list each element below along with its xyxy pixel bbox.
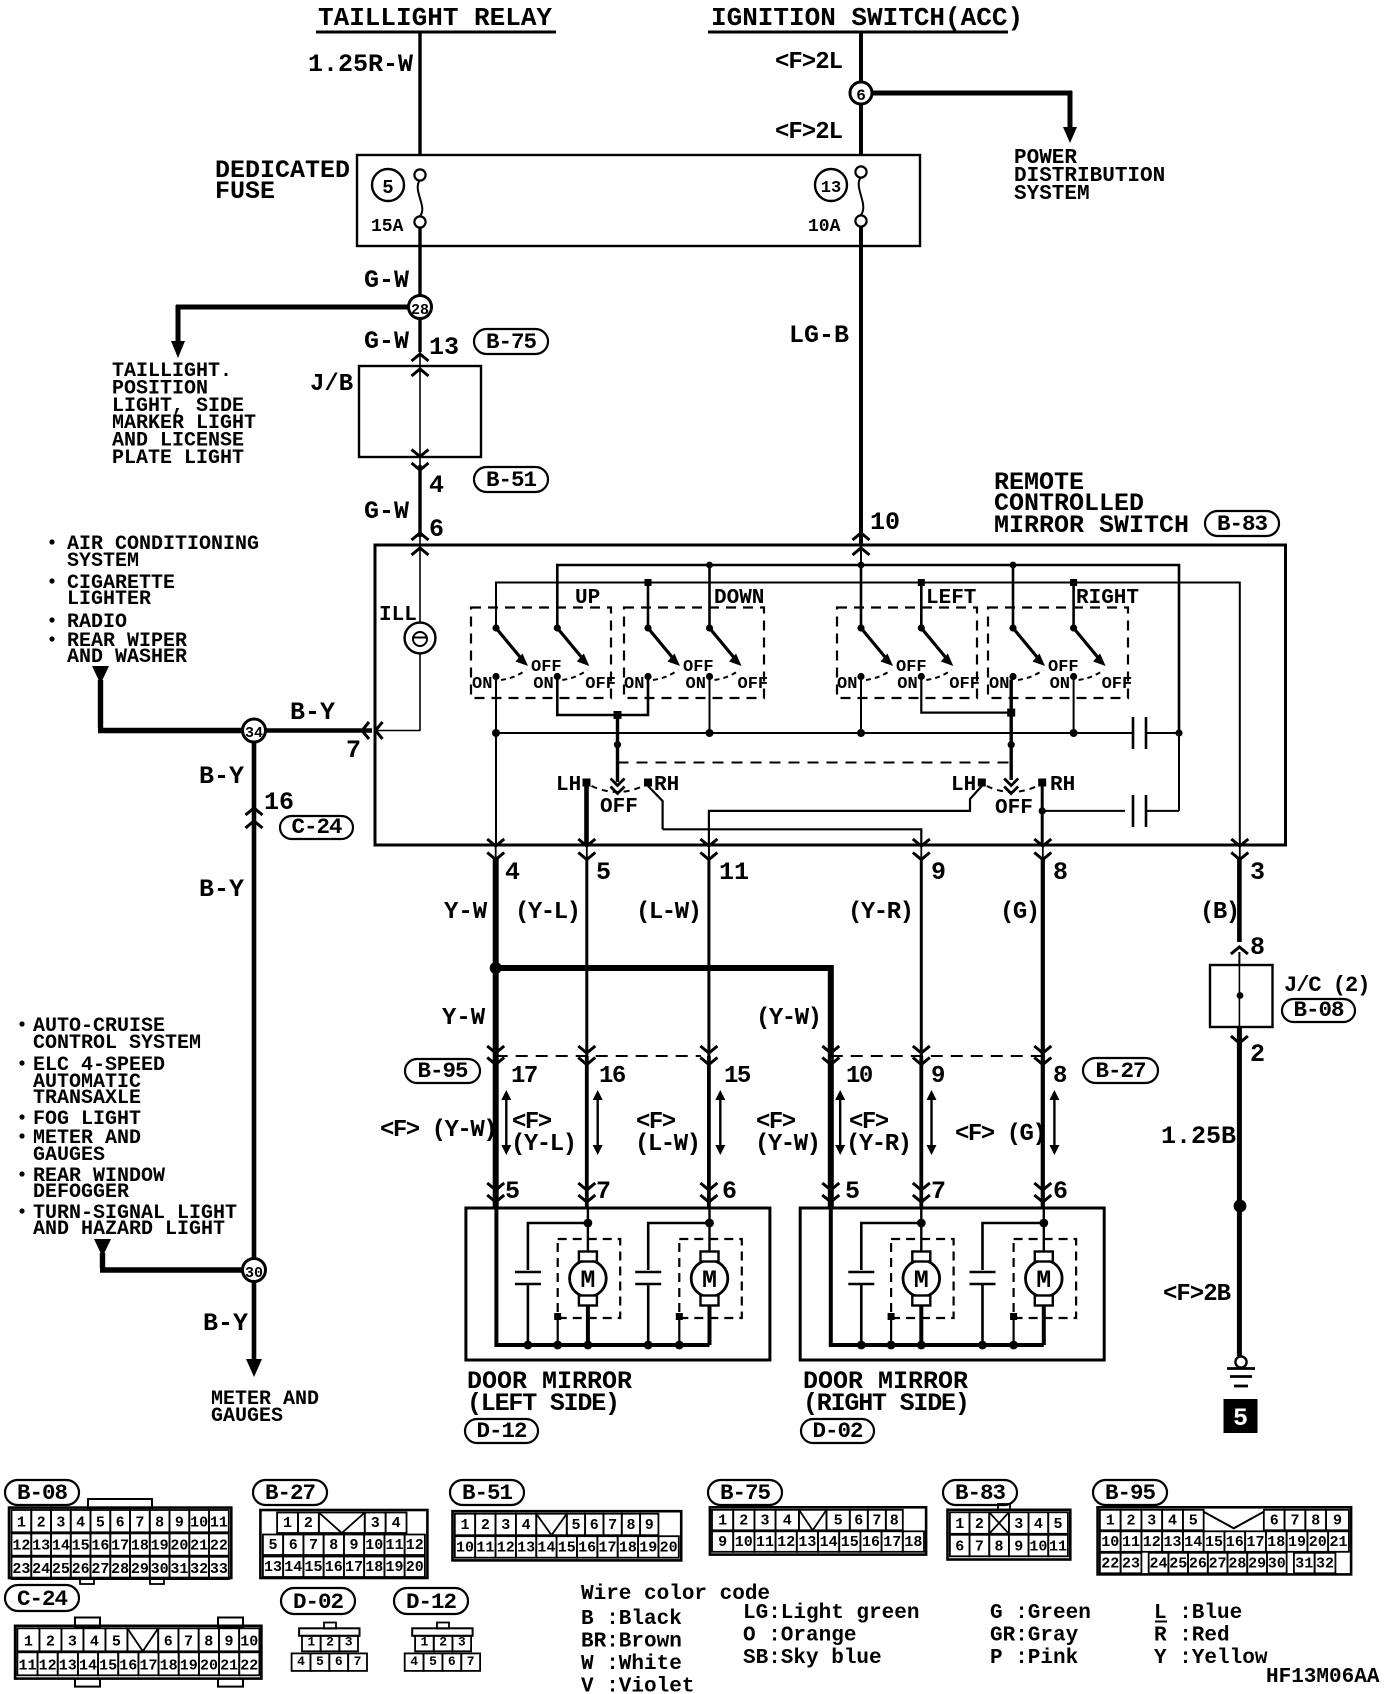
wire G-W to J/B [418, 318, 421, 352]
splice 6 [850, 82, 872, 104]
connector label B-75 [474, 329, 548, 354]
wire motor feed [1043, 1208, 1045, 1252]
svg-text:OFF: OFF [738, 675, 769, 694]
svg-text:B-Y: B-Y [290, 698, 335, 727]
svg-text:20: 20 [660, 1540, 678, 1557]
svg-text:RH: RH [1050, 774, 1075, 797]
svg-text:5: 5 [845, 1177, 860, 1206]
connector pinout D-02 [281, 1588, 355, 1614]
svg-text:14: 14 [537, 1540, 555, 1557]
svg-text:AND HAZARD LIGHT: AND HAZARD LIGHT [33, 1218, 225, 1241]
wire RH-left elbow to pin 9 [648, 786, 921, 845]
ground bus [829, 1343, 1044, 1347]
svg-text:4: 4 [90, 1633, 99, 1650]
svg-text:LG-B: LG-B [789, 321, 849, 350]
svg-text:G :Green: G :Green [990, 1602, 1091, 1625]
svg-text:23: 23 [12, 1561, 30, 1578]
svg-text:B-75: B-75 [486, 329, 537, 355]
wire LH-left to pin 5 [584, 786, 589, 845]
svg-text:DOWN: DOWN [714, 587, 764, 610]
svg-text:SYSTEM: SYSTEM [1014, 183, 1090, 206]
svg-text:<F>2B: <F>2B [1163, 1281, 1231, 1308]
svg-text:15: 15 [558, 1540, 576, 1557]
svg-text:18: 18 [904, 1534, 922, 1551]
svg-text:16: 16 [578, 1540, 596, 1557]
svg-text:ON: ON [989, 675, 1009, 694]
svg-text:1: 1 [718, 1512, 727, 1529]
svg-text:ON: ON [837, 675, 857, 694]
svg-text:3: 3 [68, 1633, 77, 1650]
motor M [891, 1239, 954, 1318]
svg-text:7: 7 [608, 1517, 617, 1534]
switch UP contact 2 [554, 624, 561, 631]
svg-text:9: 9 [175, 1514, 184, 1531]
svg-text:2: 2 [439, 1634, 447, 1649]
svg-text:7: 7 [872, 1512, 881, 1529]
connector label B-08 [1282, 999, 1355, 1022]
svg-text:1: 1 [307, 1634, 315, 1649]
svg-text:14: 14 [284, 1559, 302, 1576]
svg-text:MIRROR SWITCH: MIRROR SWITCH [994, 511, 1189, 540]
svg-text:15: 15 [305, 1559, 323, 1576]
svg-text:26: 26 [72, 1561, 90, 1578]
svg-text:OFF: OFF [995, 797, 1033, 820]
svg-text:29: 29 [131, 1561, 149, 1578]
svg-text:12: 12 [39, 1657, 57, 1674]
svg-text:16: 16 [599, 1063, 626, 1090]
svg-text:10: 10 [456, 1540, 474, 1557]
svg-text:BR:Brown: BR:Brown [581, 1631, 682, 1654]
svg-text:2: 2 [304, 1515, 313, 1532]
wire thin continuity at J/B entry [419, 352, 421, 366]
wire inside J/B [419, 366, 421, 457]
svg-text:9: 9 [931, 858, 946, 887]
svg-text:7: 7 [467, 1654, 475, 1669]
pin 5 exit [578, 839, 595, 846]
svg-text:1: 1 [421, 1634, 429, 1649]
svg-text:6: 6 [289, 1537, 298, 1554]
wire branch to power distribution [872, 91, 1072, 96]
ground [1235, 1356, 1246, 1367]
svg-text:15: 15 [72, 1538, 90, 1555]
svg-text:20: 20 [200, 1657, 218, 1674]
svg-text:B-51: B-51 [462, 1480, 513, 1506]
svg-text:20: 20 [170, 1538, 188, 1555]
svg-text:18: 18 [1267, 1534, 1285, 1551]
svg-text:1: 1 [283, 1515, 292, 1532]
wire U-link UP-c2/DOWN-c1 to LH/RH arrow left [557, 677, 648, 716]
wire UP-c2 stem / DOWN-c1 stem / LEFT-c2 / RIGHT-c2 stems [647, 583, 650, 629]
svg-text:22: 22 [210, 1538, 228, 1555]
svg-text:26: 26 [1189, 1555, 1207, 1572]
motor case link [888, 1313, 895, 1320]
svg-text:B-08: B-08 [1293, 997, 1344, 1023]
component dedicated fuse box [357, 155, 920, 246]
pin 4 exit [487, 839, 504, 846]
wire motor return [708, 1305, 712, 1345]
svg-text:11: 11 [18, 1657, 36, 1674]
svg-text:10: 10 [240, 1633, 258, 1650]
svg-text:LH: LH [951, 774, 976, 797]
connector pinout B-95 [1093, 1480, 1167, 1505]
svg-text:4: 4 [429, 471, 444, 500]
wire B-Y to meter and gauges [252, 1282, 257, 1360]
svg-text:21: 21 [190, 1538, 208, 1555]
wire (B) into J/C [1238, 952, 1240, 965]
svg-text:B-51: B-51 [486, 467, 537, 493]
svg-text:11: 11 [1049, 1538, 1067, 1555]
svg-text:4: 4 [410, 1654, 418, 1669]
ground bus [494, 1343, 709, 1347]
svg-text:(Y-L): (Y-L) [515, 899, 580, 926]
switch group LEFT dashed box [837, 608, 977, 699]
motor M [558, 1239, 621, 1318]
svg-text:13: 13 [429, 333, 459, 362]
svg-text:10: 10 [1029, 1538, 1047, 1555]
svg-text:8: 8 [155, 1514, 164, 1531]
svg-text:4: 4 [505, 858, 520, 887]
svg-text:2: 2 [739, 1512, 748, 1529]
connector pinout B-83 [943, 1480, 1017, 1505]
connector label B-83 [1205, 511, 1279, 536]
selector LH/RH left (mirror select) [611, 779, 625, 794]
wire LH-right jog to pin 11 [709, 786, 982, 845]
wire (B) pin3 down [1237, 858, 1242, 942]
svg-text:8: 8 [329, 1537, 338, 1554]
connector pinout C-24 [5, 1585, 79, 1611]
svg-text:5: 5 [112, 1633, 121, 1650]
junction Y-W branch [490, 962, 502, 974]
svg-text:18: 18 [160, 1657, 178, 1674]
connector pinout B-27 [253, 1480, 327, 1505]
capacitor [648, 1223, 709, 1270]
svg-text:3: 3 [1250, 858, 1265, 887]
motor case link [554, 1313, 561, 1320]
svg-text:RH: RH [654, 774, 679, 797]
svg-text:HF13M06AA: HF13M06AA [1266, 1666, 1380, 1689]
svg-text:9: 9 [350, 1537, 359, 1554]
svg-text:13: 13 [517, 1540, 535, 1557]
svg-text:10A: 10A [808, 217, 841, 237]
svg-text:1: 1 [460, 1517, 469, 1534]
connector label B-27 [1083, 1058, 1158, 1083]
svg-text:9: 9 [931, 1063, 945, 1090]
svg-text:3: 3 [501, 1517, 510, 1534]
svg-text:SYSTEM: SYSTEM [67, 550, 139, 573]
svg-text:25: 25 [1169, 1555, 1187, 1572]
pin 11 exit [700, 839, 717, 846]
svg-text:17: 17 [139, 1657, 157, 1674]
wire RH-right down to pin 8 [1041, 786, 1044, 845]
svg-text:8: 8 [1250, 933, 1265, 962]
wire LG-B from fuse 13 to switch pin 10 [859, 227, 863, 544]
pin 8 exit [1034, 839, 1051, 846]
svg-text:17: 17 [883, 1534, 901, 1551]
svg-text:24: 24 [32, 1561, 50, 1578]
svg-text:11: 11 [210, 1514, 228, 1531]
wire motor feed [587, 1208, 589, 1252]
svg-text:<F>2L: <F>2L [775, 49, 843, 76]
svg-text:J/B: J/B [310, 371, 353, 398]
svg-text:8: 8 [1053, 1063, 1067, 1090]
svg-text:(L-W): (L-W) [635, 1131, 700, 1158]
svg-text:32: 32 [190, 1561, 208, 1578]
svg-text:3: 3 [1014, 1516, 1023, 1533]
svg-text:34: 34 [245, 725, 263, 742]
svg-text:5: 5 [316, 1654, 324, 1669]
wire (F)2L from ignition switch [859, 33, 863, 82]
svg-text:B-Y: B-Y [199, 875, 244, 904]
svg-text:Y-W: Y-W [442, 1005, 486, 1032]
wire ILL entry inside box [419, 548, 421, 623]
fuse 5 (15A) [372, 169, 404, 201]
svg-text:5: 5 [269, 1537, 278, 1554]
svg-text:17: 17 [1247, 1534, 1265, 1551]
wire link LEFT-c2/RIGHT-c1 to LH/RH arrow right [921, 677, 1011, 713]
svg-text:1: 1 [1106, 1512, 1115, 1529]
splice 34 [243, 719, 266, 742]
capacitor [983, 1223, 1044, 1270]
svg-text:SB:Sky blue: SB:Sky blue [743, 1647, 882, 1670]
switch RIGHT contact 1 [1009, 624, 1016, 631]
wire motor return [1042, 1305, 1046, 1345]
svg-text:FUSE: FUSE [215, 177, 275, 206]
svg-text:3: 3 [1147, 1512, 1156, 1529]
svg-text:19: 19 [386, 1559, 404, 1576]
svg-text:21: 21 [220, 1657, 238, 1674]
switch DOWN contact 2 [706, 624, 713, 631]
connector label B-95 [405, 1059, 480, 1083]
splice 30 [243, 1259, 266, 1282]
svg-text:20: 20 [406, 1559, 424, 1576]
svg-text:<F> (G): <F> (G) [955, 1121, 1045, 1148]
svg-text:D-12: D-12 [476, 1418, 527, 1444]
svg-text:3: 3 [56, 1514, 65, 1531]
svg-text:B-75: B-75 [720, 1480, 771, 1506]
fuse 13 (10A) [815, 169, 847, 201]
svg-text:32: 32 [1316, 1555, 1334, 1572]
svg-text:12: 12 [497, 1540, 515, 1557]
wire motor return [586, 1305, 590, 1345]
connector B-27 dashed line [831, 1055, 1043, 1057]
svg-text:2: 2 [37, 1514, 46, 1531]
svg-text:5: 5 [382, 177, 393, 199]
svg-text:OFF: OFF [1102, 675, 1133, 694]
svg-text:B-95: B-95 [417, 1058, 468, 1084]
svg-text:16: 16 [862, 1534, 880, 1551]
svg-text:5: 5 [571, 1517, 580, 1534]
svg-text:10: 10 [190, 1514, 208, 1531]
svg-text:16: 16 [91, 1538, 109, 1555]
switch group RIGHT dashed box [988, 608, 1128, 699]
wire UP-c1 ON to rail and pin 4 [495, 677, 497, 846]
switch UP contact 1 [492, 624, 499, 631]
svg-text:2: 2 [1127, 1512, 1136, 1529]
svg-text:13: 13 [798, 1534, 816, 1551]
svg-text:14: 14 [1184, 1534, 1202, 1551]
connector B-95 dashed line [496, 1055, 701, 1057]
svg-text:27: 27 [91, 1561, 109, 1578]
svg-text:PLATE LIGHT: PLATE LIGHT [112, 447, 244, 470]
svg-text:TAILLIGHT RELAY: TAILLIGHT RELAY [318, 3, 552, 33]
svg-text:15: 15 [99, 1657, 117, 1674]
svg-text:31: 31 [170, 1561, 188, 1578]
wire continuity at pin exits [495, 845, 497, 862]
svg-text:2: 2 [481, 1517, 490, 1534]
capacitor [528, 1223, 588, 1270]
svg-text:ON: ON [897, 675, 917, 694]
svg-text:6: 6 [1270, 1512, 1279, 1529]
svg-text:5: 5 [1189, 1512, 1198, 1529]
svg-text:18: 18 [131, 1538, 149, 1555]
svg-text:1: 1 [955, 1516, 964, 1533]
svg-text:L :Blue: L :Blue [1154, 1602, 1242, 1625]
svg-text:M: M [1036, 1266, 1051, 1295]
connector label B-51 [474, 467, 548, 492]
svg-text:TRANSAXLE: TRANSAXLE [33, 1087, 141, 1110]
svg-text:6: 6 [590, 1517, 599, 1534]
junction connector J/C (2) [1210, 965, 1273, 1027]
wire (L-W) pin11 down [707, 858, 710, 1056]
svg-text:B-27: B-27 [1095, 1058, 1145, 1084]
svg-text:J/C (2): J/C (2) [1284, 973, 1369, 998]
svg-text:CONTROL SYSTEM: CONTROL SYSTEM [33, 1032, 201, 1055]
svg-text:6: 6 [1053, 1177, 1068, 1206]
wire rail upper (LG-B feed) y=565 [557, 565, 1179, 733]
svg-text:18: 18 [619, 1540, 637, 1557]
svg-text:30: 30 [1268, 1555, 1286, 1572]
svg-text:LEFT: LEFT [926, 587, 976, 610]
svg-text:ON: ON [686, 675, 706, 694]
svg-text:33: 33 [210, 1561, 228, 1578]
connector pinout B-75 [708, 1480, 782, 1505]
svg-text:LIGHTER: LIGHTER [67, 588, 151, 611]
svg-text:Wire color code: Wire color code [581, 1583, 770, 1606]
svg-text:21: 21 [1330, 1534, 1348, 1551]
wire B-Y to switch pin 7 [265, 728, 372, 733]
svg-text:31: 31 [1295, 1555, 1313, 1572]
svg-text:16: 16 [119, 1657, 137, 1674]
svg-text:G-W: G-W [364, 266, 409, 295]
switch LEFT contact 1 [857, 624, 864, 631]
svg-text:4: 4 [76, 1514, 85, 1531]
splice 28 [409, 296, 432, 319]
connector crossing chevrons at y1056 [487, 1046, 504, 1053]
wire rail lower y=582.5 [496, 583, 1240, 846]
svg-text:3: 3 [458, 1634, 466, 1649]
svg-text:GR:Gray: GR:Gray [990, 1625, 1079, 1648]
svg-text:7: 7 [975, 1538, 984, 1555]
wire G-W below J/B [419, 457, 421, 465]
svg-text:M: M [702, 1266, 717, 1295]
svg-text:11: 11 [386, 1537, 404, 1554]
svg-text:27: 27 [1209, 1555, 1227, 1572]
svg-text:ON: ON [1050, 675, 1070, 694]
svg-text:7: 7 [931, 1177, 946, 1206]
wire pin5 vertical to bus [494, 1208, 498, 1345]
connector pinout B-08 [5, 1480, 79, 1505]
svg-text:O :Orange: O :Orange [743, 1625, 856, 1648]
svg-text:ILL: ILL [379, 604, 417, 627]
svg-text:<F> (Y-W): <F> (Y-W) [380, 1117, 496, 1144]
svg-text:IGNITION SWITCH(ACC): IGNITION SWITCH(ACC) [711, 3, 1023, 33]
svg-text:B-83: B-83 [1217, 511, 1268, 537]
svg-text:1: 1 [17, 1514, 26, 1531]
svg-text:(Y-R): (Y-R) [848, 899, 913, 926]
svg-text:ON: ON [472, 675, 492, 694]
svg-text:1: 1 [24, 1633, 33, 1650]
svg-text:17: 17 [111, 1538, 129, 1555]
svg-text:28: 28 [1228, 1555, 1246, 1572]
wire motor return [919, 1305, 923, 1345]
svg-text:9: 9 [1333, 1512, 1342, 1529]
splice dot on 1.25B [1234, 1200, 1247, 1213]
svg-text:B-95: B-95 [1105, 1480, 1156, 1506]
svg-text:OFF: OFF [585, 675, 616, 694]
svg-text:D-12: D-12 [406, 1589, 457, 1615]
svg-text:6: 6 [116, 1514, 125, 1531]
wire 1.25R-W from taillight relay [418, 33, 421, 156]
selector LH/RH right [1004, 779, 1018, 794]
wire capacitor junction drop [1178, 733, 1180, 811]
svg-text:3: 3 [345, 1634, 353, 1649]
wire (Y-L) pin5 down [585, 858, 588, 1056]
svg-text:13: 13 [264, 1559, 282, 1576]
svg-text:ON: ON [624, 675, 644, 694]
svg-text:4: 4 [1034, 1516, 1043, 1533]
svg-text:12: 12 [12, 1538, 30, 1555]
motor case link [676, 1313, 683, 1320]
connector label D-02 [801, 1419, 874, 1443]
svg-text:17: 17 [599, 1540, 617, 1557]
svg-text:C-24: C-24 [17, 1586, 68, 1612]
svg-text:5: 5 [1054, 1516, 1063, 1533]
svg-text:17: 17 [511, 1063, 537, 1090]
svg-text:<F>2L: <F>2L [775, 119, 843, 146]
svg-text:5: 5 [834, 1512, 843, 1529]
svg-text:B :Black: B :Black [581, 1608, 682, 1631]
svg-text:(Y-W): (Y-W) [756, 1005, 821, 1032]
svg-text:23: 23 [1122, 1555, 1140, 1572]
wire motor feed [920, 1208, 922, 1252]
capacitor C1 (on rail 733) [1125, 732, 1133, 734]
underline L in legend [1155, 1621, 1167, 1623]
svg-text:5: 5 [429, 1654, 437, 1669]
svg-text:4: 4 [783, 1512, 792, 1529]
wire B-Y down from splice 34 [252, 742, 257, 1259]
svg-text:Y-W: Y-W [444, 899, 488, 926]
svg-text:G-W: G-W [364, 327, 409, 356]
svg-text:4: 4 [392, 1515, 401, 1532]
svg-text:17: 17 [345, 1559, 363, 1576]
svg-text:B-27: B-27 [265, 1480, 315, 1506]
svg-text:6: 6 [856, 87, 866, 105]
motor M [1014, 1239, 1077, 1318]
svg-text:28: 28 [111, 1561, 129, 1578]
svg-text:10: 10 [1101, 1534, 1119, 1551]
svg-text:7: 7 [346, 736, 361, 765]
svg-text:16: 16 [325, 1559, 343, 1576]
svg-text:30: 30 [151, 1561, 169, 1578]
svg-text:9: 9 [1014, 1538, 1023, 1555]
svg-text:(LEFT SIDE): (LEFT SIDE) [467, 1389, 619, 1418]
svg-text:30: 30 [245, 1265, 263, 1282]
svg-text:24: 24 [1150, 1555, 1168, 1572]
svg-text:13: 13 [821, 179, 841, 198]
wire (F)2L lower [859, 104, 863, 156]
motor M [679, 1239, 742, 1318]
svg-text:7: 7 [184, 1633, 193, 1650]
